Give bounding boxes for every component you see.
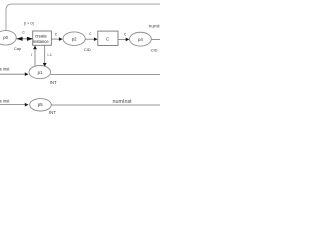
place p0: [0, 31, 16, 46]
arrowhead into p4: [126, 38, 130, 42]
place p2: [63, 32, 85, 46]
svg-text:INT: INT: [49, 110, 56, 115]
svg-text:p1: p1: [38, 70, 43, 75]
wire: p1 -> create instance (arc up, inscription i): [34, 49, 36, 66]
wire: C -> p4: [118, 38, 126, 40]
place p1 (below create instance): [29, 66, 51, 79]
svg-text:Cap: Cap: [14, 46, 22, 51]
arrowhead into p1: [25, 72, 29, 76]
svg-text:instance: instance: [33, 39, 49, 44]
svg-text:[i > 0]: [i > 0]: [24, 20, 34, 25]
svg-text:s inst: s inst: [0, 67, 10, 72]
arrowhead into C: [94, 37, 98, 41]
transition create instance: [33, 31, 52, 45]
transition C: [98, 31, 118, 45]
place p5 (bottom): [30, 99, 52, 111]
svg-text:INT: INT: [50, 80, 57, 85]
svg-text:numInst: numInst: [113, 99, 133, 105]
svg-text:i: i: [31, 52, 32, 57]
svg-text:p4: p4: [138, 37, 143, 42]
arrowhead down into p1: [43, 63, 47, 67]
svg-text:p5: p5: [38, 102, 43, 107]
wire: from left edge into p1: [0, 73, 25, 75]
svg-text:CID: CID: [84, 47, 91, 52]
wire: p4 -> right edge: [151, 38, 160, 40]
place p4: [130, 32, 152, 46]
svg-text:s inst: s inst: [0, 99, 10, 104]
wire arc from right edge back into place p0 (rounded top-left corner): [6, 4, 160, 31]
wire: p5 -> right edge: [51, 104, 160, 106]
svg-text:p0: p0: [3, 35, 8, 40]
wire: create instance -> p1 (arc down, inscription i-1): [44, 45, 46, 63]
wire: bidirectional arc p0 - create instance: [16, 38, 33, 40]
wire: p2 -> C: [85, 38, 94, 40]
svg-text:C: C: [106, 36, 109, 41]
arrowhead into p0 (left): [17, 37, 23, 41]
svg-text:numInst: numInst: [149, 23, 160, 29]
svg-text:CID: CID: [151, 47, 158, 52]
arrowhead into p2: [59, 37, 63, 41]
wire: create instance -> p2: [51, 38, 59, 40]
wire: p1 -> right edge: [51, 73, 160, 75]
wire: from left edge into p5: [0, 104, 25, 106]
arrowhead up into create instance: [33, 46, 37, 50]
arrowhead into p5: [25, 103, 29, 107]
svg-text:i-1: i-1: [47, 52, 52, 57]
arrowhead into create instance (right): [27, 37, 33, 41]
svg-text:p2: p2: [72, 36, 77, 41]
